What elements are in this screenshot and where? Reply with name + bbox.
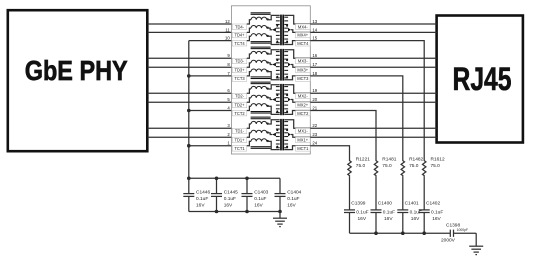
choke L3 core bars bottom xyxy=(251,76,271,79)
svg-text:MX1+: MX1+ xyxy=(297,138,308,143)
wire TD2- from PHY to pin 6 xyxy=(148,92,232,94)
pin name label TD3+ xyxy=(232,67,247,72)
svg-text:C1446: C1446 xyxy=(196,190,210,196)
junction bottom rail C1403 xyxy=(245,210,249,214)
svg-text:MCT3: MCT3 xyxy=(297,76,309,81)
transformer T3 secondary winding xyxy=(284,52,288,78)
resistor R1482 75.0 xyxy=(401,157,423,177)
pin name label MX1+ xyxy=(296,137,311,142)
svg-text:TCT3: TCT3 xyxy=(234,76,245,81)
wire choke to T2 primary bottom xyxy=(267,106,280,114)
pin name label MX2+ xyxy=(296,102,311,107)
svg-text:C1445: C1445 xyxy=(224,190,238,196)
wire R1482 to C1401 xyxy=(402,176,404,210)
wire choke to T1 primary center tap xyxy=(267,133,276,137)
wire choke to T3 primary top xyxy=(267,50,280,54)
wire termination rail xyxy=(350,232,451,234)
wire T2 secondary top to pin 19 xyxy=(284,85,310,94)
svg-text:16V: 16V xyxy=(224,202,233,208)
svg-text:C1404: C1404 xyxy=(287,190,301,196)
wire R1612 to C1402 xyxy=(423,176,425,210)
pin name label TD2+ xyxy=(232,102,247,107)
pin name label TCT3 xyxy=(232,76,247,81)
choke L4 winding c (TCT4) xyxy=(247,34,269,41)
wire T4 secondary center tap to pin 14 xyxy=(288,28,310,33)
transformer T1 primary winding xyxy=(276,122,280,148)
wire T1 secondary top to pin 22 xyxy=(284,120,310,129)
svg-text:75.0: 75.0 xyxy=(431,163,441,169)
svg-text:16V: 16V xyxy=(287,202,296,208)
transformer T3 core xyxy=(280,49,284,81)
pin name label TD4+ xyxy=(232,32,247,37)
pin name label TCT2 xyxy=(232,111,247,116)
svg-text:MX2+: MX2+ xyxy=(297,103,308,108)
choke L3 winding a (TD3-) xyxy=(247,51,269,58)
wire T3 secondary top to pin 16 xyxy=(284,50,310,59)
wire choke to T4 primary top xyxy=(267,15,280,19)
choke L2 core bars top xyxy=(251,82,271,85)
wire MX2- to RJ45 xyxy=(310,92,436,94)
choke L3 winding b (TD3+) xyxy=(247,60,269,67)
resistor R1612 75.0 xyxy=(423,157,445,177)
transformer T4 polarity dots xyxy=(276,25,288,43)
wire choke to T4 primary center tap xyxy=(267,28,276,32)
pin name label TCT4 xyxy=(232,41,247,46)
net TCT bus vertical wire xyxy=(188,41,190,179)
capacitor C1399 0.1uF 16V xyxy=(344,201,369,234)
wire TD2+ from PHY to pin 5 xyxy=(148,101,232,103)
wire T2 secondary center tap to pin 20 xyxy=(288,98,310,103)
wire T4 secondary top to pin 13 xyxy=(284,15,310,24)
svg-text:C1399: C1399 xyxy=(351,201,365,207)
svg-text:MX1-: MX1- xyxy=(298,129,308,134)
IC U1 GbE PHY box xyxy=(8,10,148,151)
svg-text:22: 22 xyxy=(312,123,317,128)
transformer module T1 outline xyxy=(231,6,310,154)
connector J1 RJ45 box xyxy=(437,16,523,143)
svg-text:TD4+: TD4+ xyxy=(234,33,245,38)
pin name label TCT1 xyxy=(232,146,247,151)
svg-text:23: 23 xyxy=(312,132,317,137)
svg-text:13: 13 xyxy=(312,19,317,24)
svg-text:16V: 16V xyxy=(254,202,263,208)
svg-text:0.1uF: 0.1uF xyxy=(287,196,299,202)
wire TD3- from PHY to pin 9 xyxy=(148,57,232,59)
wire MX2+ to RJ45 xyxy=(310,101,436,103)
svg-text:MX4-: MX4- xyxy=(298,24,308,29)
pin name label MCT1 xyxy=(296,146,311,151)
svg-text:16: 16 xyxy=(312,53,317,58)
svg-text:MCT4: MCT4 xyxy=(297,41,309,46)
svg-text:10: 10 xyxy=(225,36,230,41)
svg-text:GbE PHY: GbE PHY xyxy=(25,55,128,86)
transformer T1 core xyxy=(280,119,284,150)
svg-text:MCT1: MCT1 xyxy=(297,146,309,151)
svg-text:TD1+: TD1+ xyxy=(234,138,245,143)
svg-text:0.1uF: 0.1uF xyxy=(431,210,443,216)
svg-text:16V: 16V xyxy=(411,216,420,222)
junction rail-bus xyxy=(187,177,191,181)
svg-text:19: 19 xyxy=(312,88,317,93)
pin name label TD3- xyxy=(232,58,247,63)
svg-text:0.1uF: 0.1uF xyxy=(254,196,266,202)
svg-text:17: 17 xyxy=(312,62,317,67)
svg-text:12: 12 xyxy=(225,19,230,24)
svg-text:MX4+: MX4+ xyxy=(297,33,308,38)
pin name label MX3- xyxy=(296,58,311,63)
pin name label MX4- xyxy=(296,24,311,29)
wire MCT1 to termination resistor xyxy=(310,146,349,160)
svg-text:MX3-: MX3- xyxy=(298,59,308,64)
svg-text:75.0: 75.0 xyxy=(409,163,419,169)
choke L3 core bars top xyxy=(251,47,271,50)
junction rail R1482 branch xyxy=(401,231,405,235)
choke L4 core bars top xyxy=(251,12,271,15)
wire MX1- to RJ45 xyxy=(310,127,436,129)
wire T3 secondary center tap to pin 17 xyxy=(288,63,310,67)
svg-text:16V: 16V xyxy=(196,202,205,208)
pin name label TD4- xyxy=(232,24,247,29)
choke L2 winding b (TD2+) xyxy=(247,95,269,102)
svg-text:11: 11 xyxy=(225,27,230,32)
resistor R1221 75.0 xyxy=(348,157,370,177)
pin name label MCT3 xyxy=(296,76,311,81)
wire choke to T1 primary bottom xyxy=(267,141,280,149)
wire T3 secondary bottom to pin 18 xyxy=(284,76,310,80)
wire MX1+ to RJ45 xyxy=(310,136,436,138)
pin name label MX3+ xyxy=(296,67,311,72)
svg-text:TCT2: TCT2 xyxy=(234,111,245,116)
transformer T3 polarity dots xyxy=(276,59,288,78)
svg-text:14: 14 xyxy=(312,27,317,32)
transformer T2 polarity dots xyxy=(276,94,288,112)
pin name label MX1- xyxy=(296,128,311,133)
capacitor C1445 0.1uF 16V xyxy=(211,178,238,211)
svg-text:20: 20 xyxy=(312,97,317,102)
capacitor C1398 1000pF 2000V xyxy=(441,222,476,243)
svg-text:TD3+: TD3+ xyxy=(234,68,245,73)
capacitor C1403 0.1uF 16V xyxy=(242,178,269,211)
transformer T4 core xyxy=(280,15,284,46)
svg-text:C1403: C1403 xyxy=(254,190,268,196)
svg-text:16V: 16V xyxy=(384,216,393,222)
transformer T1 polarity dots xyxy=(276,129,288,148)
capacitor C1401 0.1uF 16V xyxy=(397,201,422,234)
svg-text:18: 18 xyxy=(312,71,317,76)
choke L4 core bars bottom xyxy=(251,41,271,44)
wire TD4- from PHY to pin 12 xyxy=(148,23,232,25)
pin name label TD2- xyxy=(232,93,247,98)
pin name label MX2- xyxy=(296,93,311,98)
svg-text:TD4-: TD4- xyxy=(235,24,245,29)
junction TCT2 xyxy=(187,109,191,113)
wire R1481 to C1400 xyxy=(375,176,377,210)
svg-text:75.0: 75.0 xyxy=(382,163,392,169)
wire TD1+ from PHY to pin 2 xyxy=(148,136,232,138)
choke L2 winding c (TCT2) xyxy=(247,104,269,111)
svg-text:16V: 16V xyxy=(358,216,367,222)
svg-text:TD2+: TD2+ xyxy=(234,103,245,108)
wire T1 secondary center tap to pin 23 xyxy=(288,133,310,138)
svg-text:1000pF: 1000pF xyxy=(457,228,469,232)
choke L1 winding c (TCT1) xyxy=(247,139,269,146)
capacitor C1400 0.1uF 16V xyxy=(371,201,396,234)
ground symbol left xyxy=(273,212,287,227)
wire choke to T3 primary bottom xyxy=(267,72,280,80)
capacitor C1446 0.1uF 16V xyxy=(183,178,210,211)
transformer T2 core xyxy=(280,84,284,115)
pin name label TD1+ xyxy=(232,137,247,142)
svg-text:0.1uF: 0.1uF xyxy=(356,210,368,216)
junction rail R1481 branch xyxy=(374,231,378,235)
svg-text:TD3-: TD3- xyxy=(235,59,245,64)
svg-text:0.1uF: 0.1uF xyxy=(224,196,236,202)
svg-text:TD1-: TD1- xyxy=(235,129,245,134)
junction TCT1 xyxy=(187,144,191,148)
svg-text:R1221: R1221 xyxy=(356,157,370,163)
svg-text:RJ45: RJ45 xyxy=(453,61,512,97)
svg-text:2000V: 2000V xyxy=(441,238,456,244)
svg-text:TCT1: TCT1 xyxy=(234,146,245,151)
wire bypass rail top xyxy=(189,177,280,179)
wire choke to T1 primary top xyxy=(267,120,280,124)
choke L3 winding c (TCT3) xyxy=(247,69,269,76)
wire T1 secondary bottom to pin 24 xyxy=(284,146,310,150)
wire choke to T4 primary bottom xyxy=(267,36,280,44)
choke L1 winding b (TD1+) xyxy=(247,130,269,137)
transformer T2 secondary winding xyxy=(284,87,288,113)
junction bottom rail C1404 xyxy=(278,210,282,214)
wire T2 secondary bottom to pin 21 xyxy=(284,111,310,115)
svg-text:MX3+: MX3+ xyxy=(297,68,308,73)
svg-text:C1402: C1402 xyxy=(426,201,440,207)
pin name label MCT4 xyxy=(296,41,311,46)
wire R1221 to C1399 xyxy=(349,176,351,210)
svg-text:C1401: C1401 xyxy=(405,201,419,207)
choke L2 winding a (TD2-) xyxy=(247,86,269,93)
svg-text:TD2-: TD2- xyxy=(235,94,245,99)
wire MCT2 to termination resistor xyxy=(310,111,376,161)
junction top rail C1445 xyxy=(215,177,219,181)
choke L4 winding a (TD4-) xyxy=(247,17,269,24)
svg-text:15: 15 xyxy=(312,36,317,41)
svg-text:0.1uF: 0.1uF xyxy=(196,196,208,202)
wire bypass rail bottom xyxy=(189,211,280,213)
junction rail R1612 branch xyxy=(422,231,426,235)
wire TD4+ from PHY to pin 11 xyxy=(148,31,232,33)
wire TCT3 pin 7 to TCT bus xyxy=(189,75,232,77)
wire MX3- to RJ45 xyxy=(310,57,436,59)
transformer T2 primary winding xyxy=(276,87,280,113)
choke L1 core bars bottom xyxy=(251,146,271,149)
wire MCT3 to termination resistor xyxy=(310,76,403,160)
choke L1 winding a (TD1-) xyxy=(247,121,269,128)
junction bottom rail C1445 xyxy=(215,210,219,214)
wire MX4- to RJ45 xyxy=(310,23,436,25)
capacitor C1404 0.1uF 16V xyxy=(275,178,302,211)
svg-text:TCT4: TCT4 xyxy=(234,41,245,46)
pin name label TD1- xyxy=(232,128,247,133)
svg-text:0.1uF: 0.1uF xyxy=(383,210,395,216)
svg-text:21: 21 xyxy=(312,105,317,110)
wire T4 secondary bottom to pin 15 xyxy=(284,41,310,45)
svg-text:MX2-: MX2- xyxy=(298,94,308,99)
svg-text:R1612: R1612 xyxy=(431,157,445,163)
transformer T1 secondary winding xyxy=(284,122,288,148)
svg-text:R1482: R1482 xyxy=(409,157,423,163)
ground symbol right xyxy=(469,233,483,254)
wire TCT4 pin 10 to TCT bus xyxy=(189,40,232,42)
wire TD3+ from PHY to pin 8 xyxy=(148,66,232,68)
resistor R1481 75.0 xyxy=(374,157,396,177)
wire MX4+ to RJ45 xyxy=(310,31,436,33)
pin name label MX4+ xyxy=(296,32,311,37)
wire choke to T3 primary center tap xyxy=(267,63,276,67)
wire MX3+ to RJ45 xyxy=(310,66,436,68)
choke L4 winding b (TD4+) xyxy=(247,25,269,32)
svg-text:75.0: 75.0 xyxy=(356,163,366,169)
svg-text:C1400: C1400 xyxy=(378,201,392,207)
svg-text:24: 24 xyxy=(312,141,317,146)
transformer T4 primary winding xyxy=(276,17,280,42)
pin name label MCT2 xyxy=(296,111,311,116)
wire TCT1 pin 1 to TCT bus xyxy=(189,145,232,147)
wire TD1- from PHY to pin 3 xyxy=(148,127,232,129)
junction top rail C1403 xyxy=(245,177,249,181)
svg-text:R1481: R1481 xyxy=(382,157,396,163)
svg-text:16V: 16V xyxy=(432,216,441,222)
choke L2 core bars bottom xyxy=(251,111,271,114)
transformer T3 primary winding xyxy=(276,52,280,78)
wire choke to T2 primary center tap xyxy=(267,98,276,102)
wire TCT2 pin 4 to TCT bus xyxy=(189,110,232,112)
wire choke to T2 primary top xyxy=(267,85,280,89)
svg-text:MCT2: MCT2 xyxy=(297,111,309,116)
wire MCT4 to termination resistor xyxy=(310,41,424,160)
choke L1 core bars top xyxy=(251,117,271,120)
capacitor C1402 0.1uF 16V xyxy=(419,201,444,234)
transformer T4 secondary winding xyxy=(284,17,288,42)
junction TCT3 xyxy=(187,74,191,78)
